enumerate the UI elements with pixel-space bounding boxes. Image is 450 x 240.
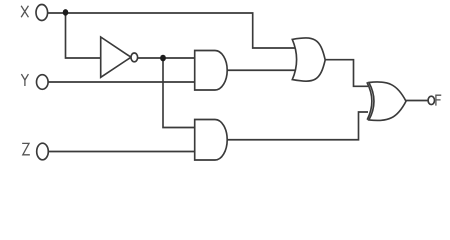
label Z [23, 143, 29, 154]
wire NOT output to AND1 top input [137, 57, 196, 59]
or-gate U4 [292, 38, 325, 81]
inverter U1 bubble [131, 53, 138, 62]
wire NOT junction drop to AND2 top input [163, 58, 196, 128]
label Y [22, 75, 28, 86]
label F [436, 95, 441, 105]
label X [22, 6, 29, 16]
xor-gate U5 body [369, 82, 406, 121]
node junction on NOT output [160, 55, 166, 62]
terminal F output circle [428, 96, 434, 104]
wire X horizontal top to OR top input [48, 13, 296, 48]
wire Y to AND1 bottom input [48, 81, 196, 83]
wire AND1 output to OR lower input [227, 69, 297, 71]
and-gate U3 (bottom AND) [195, 120, 228, 161]
wire Z to AND2 bottom input [49, 151, 197, 153]
xor-gate U5 leading curve [367, 82, 372, 119]
and-gate U2 (top AND) [195, 51, 228, 91]
wire AND2 output to XOR bottom input [227, 112, 369, 140]
inverter U1 (NOT gate) [101, 37, 131, 77]
wire OR output to XOR top input [325, 60, 369, 87]
terminal X [36, 5, 48, 21]
node junction on X line [63, 9, 69, 16]
wire X junction drop to NOT input [66, 13, 102, 58]
terminal Y [37, 75, 49, 90]
terminal Z [37, 143, 49, 160]
wire XOR output to terminal F [406, 100, 429, 102]
